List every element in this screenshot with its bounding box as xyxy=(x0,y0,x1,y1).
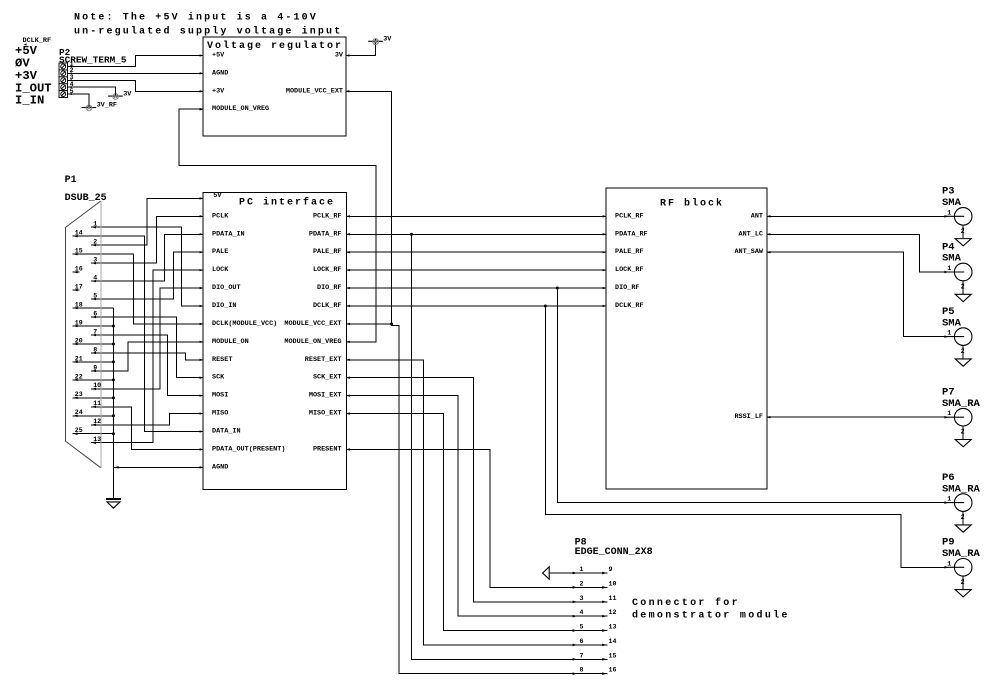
svg-text:3V: 3V xyxy=(335,52,344,60)
svg-text:AGND: AGND xyxy=(212,69,228,77)
svg-text:1: 1 xyxy=(947,496,951,503)
svg-text:24: 24 xyxy=(75,409,83,416)
svg-text:9: 9 xyxy=(609,566,613,573)
svg-text:SMA: SMA xyxy=(942,253,962,265)
svg-text:8: 8 xyxy=(580,667,584,674)
svg-text:DIO_OUT: DIO_OUT xyxy=(212,284,241,292)
svg-text:20: 20 xyxy=(75,337,83,344)
svg-text:SMA: SMA xyxy=(942,197,962,209)
svg-text:Voltage regulator: Voltage regulator xyxy=(207,40,343,52)
svg-text:10: 10 xyxy=(93,382,101,389)
svg-text:LOCK_RF: LOCK_RF xyxy=(615,266,644,274)
svg-text:ANT: ANT xyxy=(751,212,763,220)
svg-text:2: 2 xyxy=(93,239,97,246)
svg-text:RESET_EXT: RESET_EXT xyxy=(305,356,342,364)
svg-text:2: 2 xyxy=(961,348,965,355)
svg-text:demonstrator module: demonstrator module xyxy=(632,609,790,621)
svg-text:SCREW_TERM_5: SCREW_TERM_5 xyxy=(59,55,127,66)
svg-text:P1: P1 xyxy=(65,175,77,186)
svg-text:5: 5 xyxy=(93,292,97,299)
svg-text:DATA_IN: DATA_IN xyxy=(212,427,241,435)
svg-text:2: 2 xyxy=(961,228,965,235)
svg-text:MODULE_ON_VREG: MODULE_ON_VREG xyxy=(212,105,269,113)
svg-text:SMA: SMA xyxy=(942,317,962,329)
svg-text:3V_RF: 3V_RF xyxy=(97,102,117,110)
svg-text:PDATA_RF: PDATA_RF xyxy=(615,230,648,238)
svg-text:MODULE_ON_VREG: MODULE_ON_VREG xyxy=(284,338,341,346)
svg-text:DIO_RF: DIO_RF xyxy=(317,284,341,292)
svg-text:PCLK_RF: PCLK_RF xyxy=(313,212,342,220)
svg-text:PDATA_RF: PDATA_RF xyxy=(309,230,342,238)
svg-text:PCLK_RF: PCLK_RF xyxy=(615,212,644,220)
svg-text:4: 4 xyxy=(93,274,97,281)
svg-text:9: 9 xyxy=(93,364,97,371)
svg-text:MOSI_EXT: MOSI_EXT xyxy=(309,392,342,400)
svg-text:MOSI: MOSI xyxy=(212,392,228,400)
svg-text:2: 2 xyxy=(961,429,965,436)
svg-text:P4: P4 xyxy=(942,241,955,253)
svg-text:+5V: +5V xyxy=(212,52,225,60)
svg-text:11: 11 xyxy=(93,400,101,407)
svg-text:Note: The +5V input is a 4-10V: Note: The +5V input is a 4-10V xyxy=(74,12,318,24)
svg-text:5V: 5V xyxy=(213,192,222,200)
svg-text:+3V: +3V xyxy=(212,87,225,95)
svg-text:MODULE_VCC_EXT: MODULE_VCC_EXT xyxy=(284,320,341,328)
svg-text:2: 2 xyxy=(961,579,965,586)
svg-text:P7: P7 xyxy=(942,387,955,399)
svg-text:SMA_RA: SMA_RA xyxy=(942,548,981,560)
svg-text:P9: P9 xyxy=(942,537,955,549)
svg-text:DSUB_25: DSUB_25 xyxy=(65,193,107,204)
svg-text:1: 1 xyxy=(947,330,951,337)
svg-text:10: 10 xyxy=(609,580,617,587)
svg-text:PALE_RF: PALE_RF xyxy=(615,248,644,256)
svg-text:SCK: SCK xyxy=(212,374,225,382)
svg-text:SMA_RA: SMA_RA xyxy=(942,483,981,495)
svg-text:ANT_LC: ANT_LC xyxy=(739,230,763,238)
svg-text:DCLK(MODULE_VCC): DCLK(MODULE_VCC) xyxy=(212,320,277,328)
svg-text:1: 1 xyxy=(947,410,951,417)
svg-text:1: 1 xyxy=(93,221,97,228)
svg-text:P3: P3 xyxy=(942,186,955,198)
svg-text:PRESENT: PRESENT xyxy=(313,445,342,453)
svg-text:DIO_RF: DIO_RF xyxy=(615,284,639,292)
svg-text:EDGE_CONN_2X8: EDGE_CONN_2X8 xyxy=(575,547,653,558)
svg-text:14: 14 xyxy=(609,638,617,645)
svg-text:16: 16 xyxy=(609,667,617,674)
svg-text:17: 17 xyxy=(75,283,83,290)
svg-text:5: 5 xyxy=(70,88,74,95)
svg-text:DIO_IN: DIO_IN xyxy=(212,302,236,310)
svg-text:6: 6 xyxy=(93,310,97,317)
svg-text:P5: P5 xyxy=(942,306,955,318)
svg-text:2: 2 xyxy=(580,580,584,587)
svg-text:PDATA_OUT(PRESENT): PDATA_OUT(PRESENT) xyxy=(212,445,285,453)
svg-text:MODULE_ON: MODULE_ON xyxy=(212,338,249,346)
svg-text:6: 6 xyxy=(580,638,584,645)
svg-text:3: 3 xyxy=(580,595,584,602)
svg-text:Connector for: Connector for xyxy=(632,597,740,609)
svg-text:18: 18 xyxy=(75,301,83,308)
svg-text:12: 12 xyxy=(609,609,617,616)
svg-text:LOCK_RF: LOCK_RF xyxy=(313,266,342,274)
svg-text:1: 1 xyxy=(947,560,951,567)
svg-text:13: 13 xyxy=(93,436,101,443)
svg-text:I_IN: I_IN xyxy=(15,94,44,108)
svg-text:8: 8 xyxy=(93,346,97,353)
svg-text:DCLK_RF: DCLK_RF xyxy=(615,302,644,310)
svg-text:2: 2 xyxy=(961,284,965,291)
svg-text:SMA_RA: SMA_RA xyxy=(942,398,981,410)
svg-text:7: 7 xyxy=(580,652,584,659)
svg-text:25: 25 xyxy=(75,427,83,434)
svg-text:PALE: PALE xyxy=(212,248,228,256)
svg-text:13: 13 xyxy=(609,624,617,631)
svg-text:LOCK: LOCK xyxy=(212,266,229,274)
svg-text:MODULE_VCC_EXT: MODULE_VCC_EXT xyxy=(286,87,343,95)
svg-text:11: 11 xyxy=(609,595,617,602)
svg-text:P6: P6 xyxy=(942,472,955,484)
svg-text:1: 1 xyxy=(580,566,584,573)
svg-text:3: 3 xyxy=(93,257,97,264)
svg-text:PDATA_IN: PDATA_IN xyxy=(212,230,245,238)
svg-text:DCLK_RF: DCLK_RF xyxy=(313,302,342,310)
svg-text:ANT_SAW: ANT_SAW xyxy=(734,248,763,256)
svg-text:4: 4 xyxy=(580,609,584,616)
svg-text:15: 15 xyxy=(609,652,617,659)
svg-text:un-regulated supply voltage in: un-regulated supply voltage input xyxy=(74,25,342,37)
svg-text:12: 12 xyxy=(93,418,101,425)
svg-text:14: 14 xyxy=(75,230,83,237)
svg-text:22: 22 xyxy=(75,373,83,380)
svg-text:MISO: MISO xyxy=(212,410,228,418)
svg-text:15: 15 xyxy=(75,248,83,255)
svg-text:3V: 3V xyxy=(383,36,392,44)
svg-text:23: 23 xyxy=(75,391,83,398)
svg-text:RESET: RESET xyxy=(212,356,232,364)
svg-text:3V: 3V xyxy=(123,90,132,98)
svg-text:PCLK: PCLK xyxy=(212,212,229,220)
svg-text:MISO_EXT: MISO_EXT xyxy=(309,410,342,418)
svg-text:16: 16 xyxy=(75,266,83,273)
svg-text:21: 21 xyxy=(75,355,83,362)
svg-text:AGND: AGND xyxy=(212,463,228,471)
svg-text:7: 7 xyxy=(93,328,97,335)
svg-text:PALE_RF: PALE_RF xyxy=(313,248,342,256)
svg-text:RF block: RF block xyxy=(660,198,724,210)
svg-text:PC interface: PC interface xyxy=(239,197,335,209)
svg-text:RSSI_LF: RSSI_LF xyxy=(734,413,763,421)
svg-text:1: 1 xyxy=(947,209,951,216)
svg-text:5: 5 xyxy=(580,624,584,631)
svg-text:1: 1 xyxy=(947,265,951,272)
svg-text:19: 19 xyxy=(75,319,83,326)
svg-text:2: 2 xyxy=(961,514,965,521)
svg-text:SCK_EXT: SCK_EXT xyxy=(313,374,342,382)
